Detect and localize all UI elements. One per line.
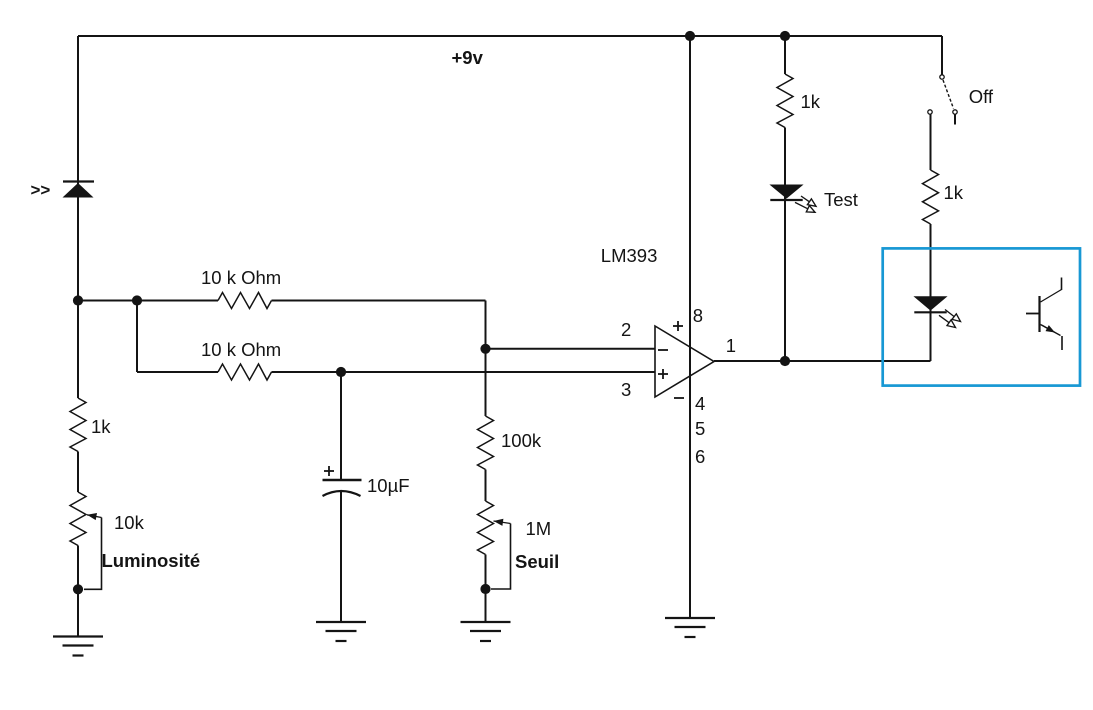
svg-text:1k: 1k: [91, 416, 111, 437]
svg-text:8: 8: [693, 305, 703, 326]
svg-text:2: 2: [621, 319, 631, 340]
svg-text:Off: Off: [969, 86, 994, 107]
svg-text:Test: Test: [824, 189, 858, 210]
svg-text:10k: 10k: [114, 512, 145, 533]
svg-text:Luminosité: Luminosité: [102, 550, 201, 571]
svg-text:+9v: +9v: [452, 47, 484, 68]
svg-text:5: 5: [695, 418, 705, 439]
svg-text:Seuil: Seuil: [515, 551, 559, 572]
svg-text:10µF: 10µF: [367, 475, 410, 496]
svg-text:1: 1: [726, 335, 736, 356]
svg-text:10 k Ohm: 10 k Ohm: [201, 339, 281, 360]
svg-text:6: 6: [695, 446, 705, 467]
svg-text:1M: 1M: [526, 518, 552, 539]
svg-text:1k: 1k: [801, 91, 821, 112]
svg-text:100k: 100k: [501, 430, 542, 451]
svg-text:3: 3: [621, 379, 631, 400]
svg-text:LM393: LM393: [601, 245, 658, 266]
svg-text:10 k Ohm: 10 k Ohm: [201, 267, 281, 288]
svg-text:4: 4: [695, 393, 705, 414]
svg-text:1k: 1k: [944, 182, 964, 203]
svg-text:>>: >>: [31, 181, 51, 200]
